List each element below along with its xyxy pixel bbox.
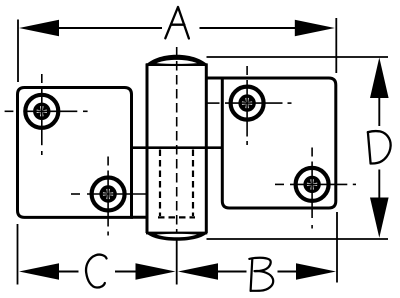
screw U2 crosshair — [71, 157, 146, 236]
dimension D extension line bottom — [207, 238, 389, 240]
dimension A right arrow — [295, 20, 335, 37]
barrel centerline dashed — [176, 47, 178, 232]
hidden pin bottom dashed line — [158, 216, 195, 218]
label B — [249, 258, 273, 291]
dimension A left arrow — [19, 20, 59, 37]
barrel top rim line — [146, 63, 207, 66]
left plate — [18, 88, 132, 218]
dimension A line — [58, 27, 162, 29]
screw U4 head — [296, 168, 329, 201]
centerline extension below barrel — [176, 238, 178, 285]
screw U3 crosshair — [207, 66, 292, 145]
screw U4 crosshair — [275, 148, 356, 229]
hinge barrel right edge — [205, 64, 208, 234]
dimension A extension line right — [335, 18, 337, 73]
dimension D extension line top — [207, 56, 389, 58]
hidden pin right dashed line — [192, 150, 194, 217]
dimension D line — [378, 97, 380, 126]
screw U1 head — [25, 95, 58, 128]
dimension C line — [58, 271, 79, 273]
dimension B right arrow — [296, 263, 336, 280]
dimension A extension line left — [17, 20, 19, 83]
dimension B line — [217, 271, 247, 273]
barrel bottom rim line — [146, 232, 207, 235]
barrel bottom cap — [146, 233, 208, 241]
hinge barrel left edge — [146, 64, 149, 234]
label C — [86, 255, 106, 288]
bottom cap white sliver — [157, 234, 198, 237]
dimension C left arrow — [19, 263, 59, 280]
hidden pin left dashed line — [159, 150, 161, 217]
dimension D bottom arrow — [370, 198, 389, 238]
dome cap white sliver — [157, 60, 198, 64]
screw U3 head — [231, 87, 264, 120]
knuckle joint line — [131, 146, 223, 149]
barrel dome cap — [146, 55, 208, 65]
right plate web top edge — [205, 77, 224, 80]
dimension C right arrow — [136, 263, 176, 280]
label A — [165, 7, 189, 39]
label D — [368, 131, 391, 163]
dimension B left arrow — [178, 263, 218, 280]
screw U1 crosshair — [5, 74, 88, 155]
right plate — [222, 78, 335, 208]
dimension C extension line left — [17, 224, 19, 285]
left plate web bottom edge — [131, 216, 149, 219]
dimension B extension line right — [336, 212, 338, 283]
dimension D top arrow — [370, 58, 389, 99]
screw U2 head — [92, 178, 125, 211]
